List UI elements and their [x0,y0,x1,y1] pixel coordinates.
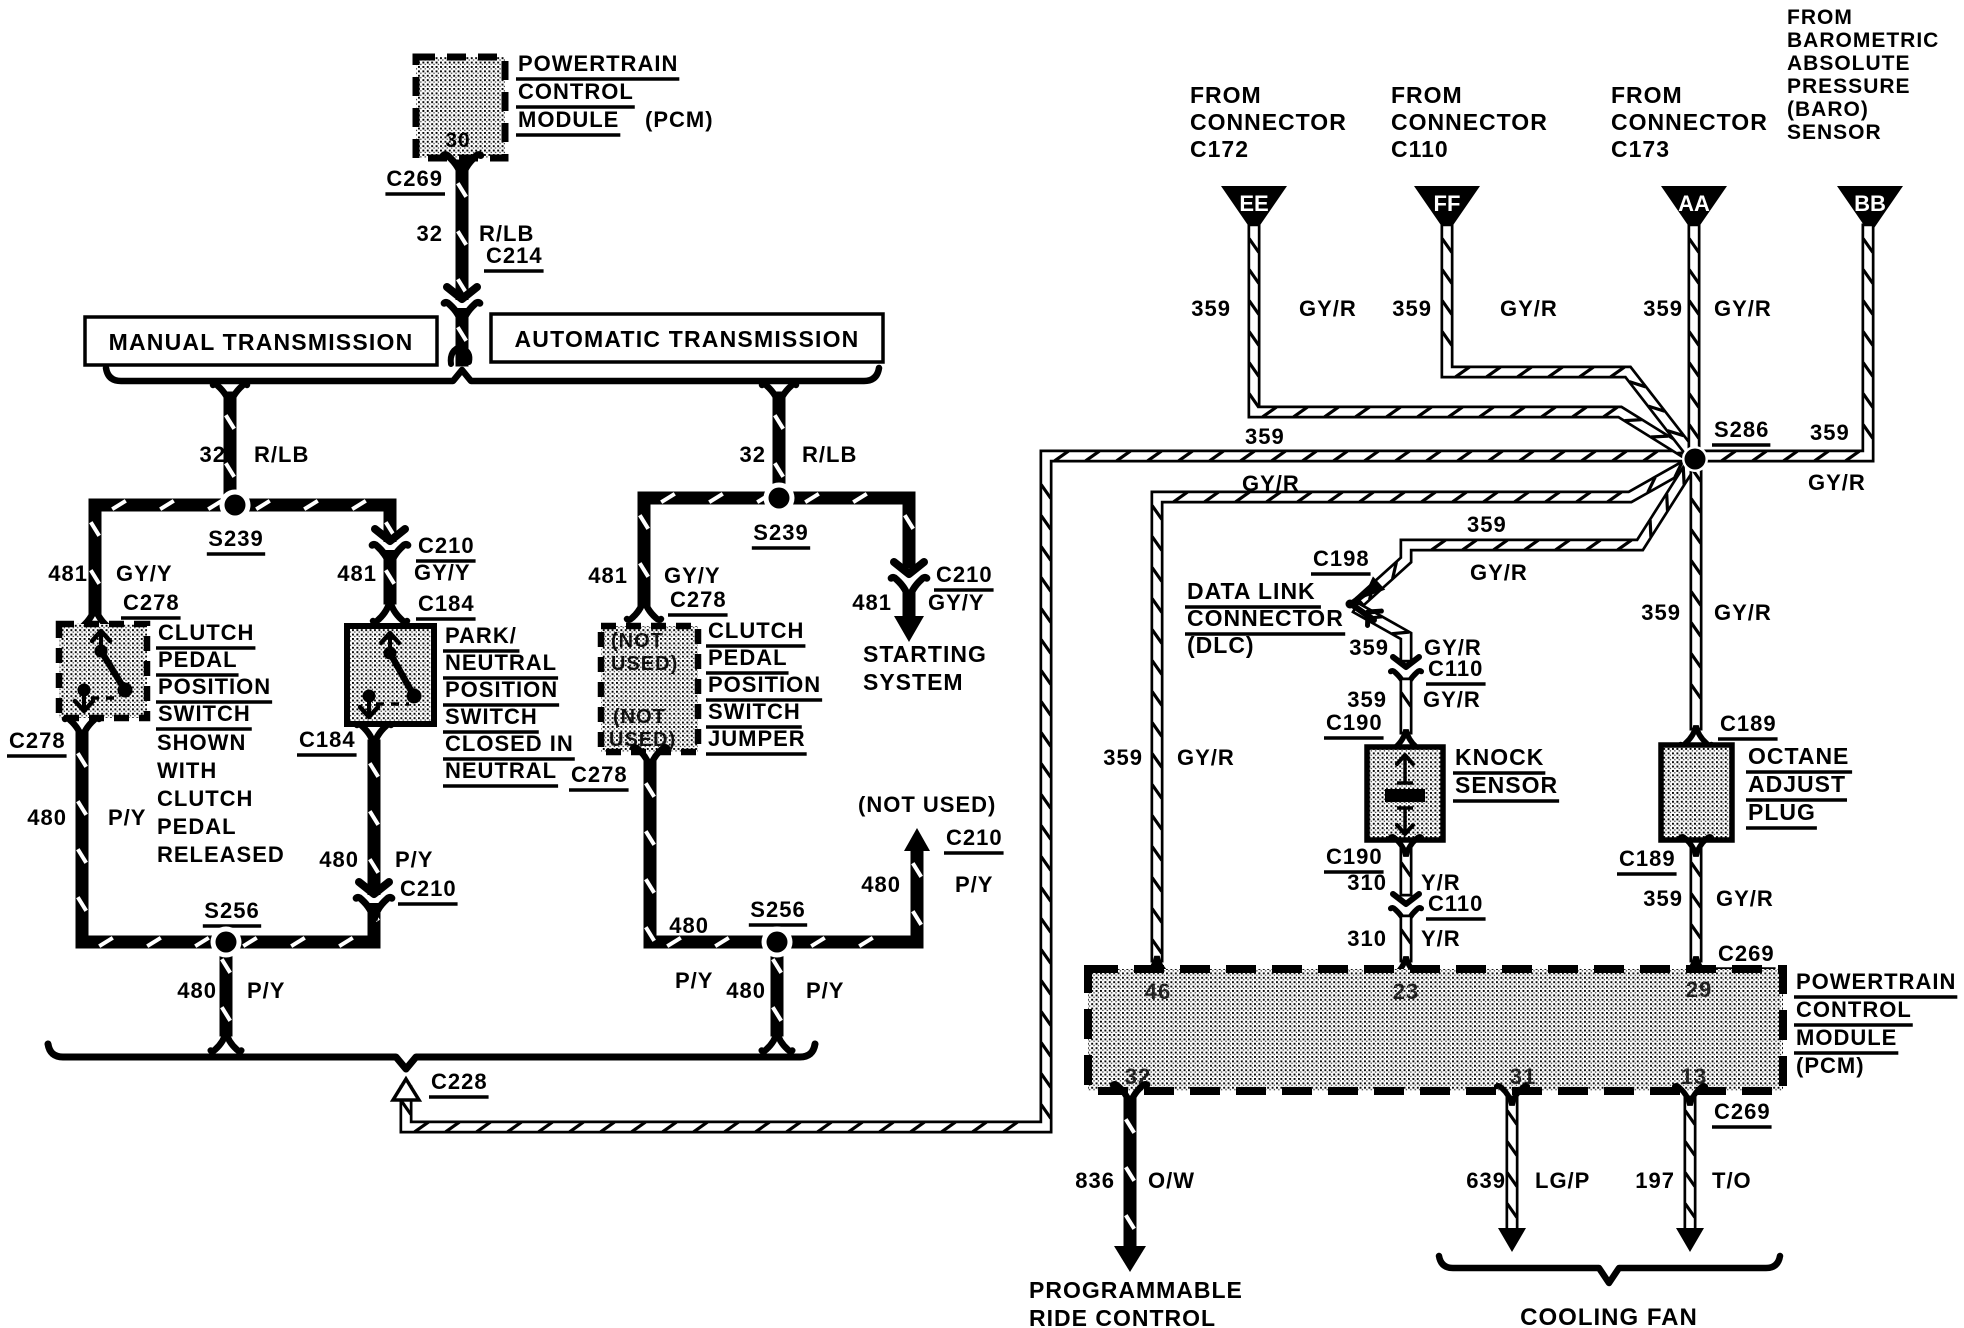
wire 359 GY/R from S286 to octane adjust plug [1681,459,1712,745]
wire 481 GY/Y auto horizontal [644,494,909,502]
svg-text:S256: S256 [750,897,805,922]
svg-text:POSITION: POSITION [158,674,271,699]
wire 481 GY/Y auto left vertical [627,498,661,620]
svg-text:P/Y: P/Y [108,805,146,830]
svg-text:480: 480 [319,847,359,872]
svg-text:CLUTCH: CLUTCH [157,786,253,811]
svg-text:GY/R: GY/R [1177,745,1235,770]
svg-text:29: 29 [1686,977,1712,1002]
svg-text:GY/R: GY/R [1808,470,1866,495]
svg-text:CONNECTOR: CONNECTOR [1187,605,1344,631]
svg-text:GY/R: GY/R [1299,296,1357,321]
svg-text:SWITCH: SWITCH [158,701,251,726]
svg-text:EE: EE [1239,191,1268,216]
svg-text:C269: C269 [1714,1099,1771,1124]
svg-text:SENSOR: SENSOR [1787,121,1882,144]
wire 32 R/LB automatic branch [762,384,796,493]
svg-text:32: 32 [740,442,766,467]
wire label 836 O/W [1075,1168,1195,1193]
svg-text:P/Y: P/Y [395,847,433,872]
wire 359 GY/R from AA [1689,230,1699,456]
label POWERTRAIN CONTROL MODULE (PCM) top [516,51,714,135]
svg-text:(NOT USED): (NOT USED) [858,792,996,817]
svg-text:C228: C228 [431,1069,488,1094]
connector C228 label [429,1069,489,1097]
svg-text:(DLC): (DLC) [1187,632,1255,658]
svg-text:GY/R: GY/R [1500,296,1558,321]
svg-text:GY/Y: GY/Y [116,561,173,586]
connector C198 label [1311,546,1371,574]
wire 481 GY/Y from S239 down to C184 [373,505,407,622]
connector C278 label (below jumper) [569,762,629,790]
connector triangle FF [1414,186,1480,234]
svg-text:639: 639 [1466,1168,1506,1193]
wire 359 GY/R from BB [1700,230,1873,461]
svg-text:PEDAL: PEDAL [158,647,238,672]
powertrain control module PCM (top) box [416,57,505,158]
svg-text:MODULE: MODULE [1796,1025,1897,1050]
svg-text:C198: C198 [1313,546,1370,571]
label (NOT USED) C210 480 P/Y (auto stub) [858,792,1004,897]
svg-text:359: 359 [1349,635,1389,660]
svg-text:PLUG: PLUG [1748,799,1816,825]
svg-text:SWITCH: SWITCH [445,704,538,729]
svg-text:GY/Y: GY/Y [414,560,471,585]
svg-text:359: 359 [1347,687,1387,712]
wire 480 P/Y below S256 (manual) [211,942,242,1051]
svg-text:BB: BB [1854,191,1886,216]
svg-text:OCTANE: OCTANE [1748,743,1849,769]
connector C184 label (below park/neutral) [297,727,357,755]
svg-text:S256: S256 [204,898,259,923]
wire 359 GY/R from FF [1442,230,1694,457]
data link connector DLC symbol [1346,576,1386,625]
wire stub + arrow to STARTING SYSTEM [894,592,924,642]
svg-text:S286: S286 [1714,417,1769,442]
svg-text:CLOSED IN: CLOSED IN [445,731,574,756]
wire label 359 GY/R (octane upper) [1641,600,1772,625]
svg-text:NEUTRAL: NEUTRAL [445,758,557,783]
clutch pedal position switch jumper box (NOT USED) [601,626,698,752]
svg-text:480: 480 [861,872,901,897]
wire label 197 T/O [1635,1168,1751,1193]
wire label 639 LG/P [1466,1168,1590,1193]
brace cooling fan [1439,1256,1780,1283]
label S239 (auto) [752,520,810,548]
wire label 359 (loop) [1245,424,1285,449]
connector triangle BB [1837,186,1903,234]
wire 359 loop from C228 to S286 [401,451,1686,1132]
svg-text:GY/R: GY/R [1423,687,1481,712]
svg-text:359: 359 [1103,745,1143,770]
label CLUTCH PEDAL POSITION SWITCH JUMPER [706,618,822,754]
svg-text:ADJUST: ADJUST [1748,771,1846,797]
svg-text:P/Y: P/Y [675,968,713,993]
wire label 359 GY/R (above C110) [1349,635,1482,660]
wire label 480 P/Y (auto bottom) [726,978,844,1003]
svg-text:(PCM): (PCM) [1796,1053,1865,1078]
svg-text:C172: C172 [1190,136,1249,162]
splice S256 (auto) [762,927,793,958]
svg-text:Y/R: Y/R [1421,926,1461,951]
svg-text:T/O: T/O [1712,1168,1752,1193]
connector C110 inline (knock, lower) [1391,894,1422,927]
wire 310 Y/R below knock sensor [1391,837,1422,890]
label S256 (auto) [749,897,807,925]
label S256 (manual) [203,898,261,926]
wire label 32 R/LB (auto) [740,442,858,467]
svg-text:C278: C278 [9,728,66,753]
wire label 481 GY/Y (left) [48,561,172,586]
svg-text:(NOT: (NOT [611,630,664,652]
wire label 32 R/LB (top) [417,221,535,246]
svg-text:CONTROL: CONTROL [1796,997,1912,1022]
label FROM CONNECTOR C173 [1611,82,1768,162]
svg-text:32: 32 [417,221,443,246]
svg-text:SENSOR: SENSOR [1455,772,1558,798]
svg-text:(BARO): (BARO) [1787,98,1869,121]
svg-text:359: 359 [1392,296,1432,321]
svg-text:FROM: FROM [1611,82,1683,108]
svg-text:RIDE CONTROL: RIDE CONTROL [1029,1305,1216,1328]
connector C210 inline (manual upper) [372,529,408,567]
svg-text:GY/R: GY/R [1714,296,1772,321]
wire label 480 P/Y and C210 (manual right) [319,847,457,904]
wire 359 GY/R from octane plug to PCM pin 29 [1681,837,1712,976]
svg-text:C190: C190 [1326,710,1383,735]
wire 197 T/O to cooling fan [1675,1086,1706,1252]
wire label 480 P/Y (manual bottom) [177,978,285,1003]
svg-text:836: 836 [1075,1168,1115,1193]
svg-text:CONNECTOR: CONNECTOR [1190,109,1347,135]
label FROM BAROMETRIC ABSOLUTE PRESSURE (BARO) SENSOR [1787,6,1939,144]
svg-text:CLUTCH: CLUTCH [158,620,254,645]
svg-text:POWERTRAIN: POWERTRAIN [1796,969,1956,994]
svg-text:JUMPER: JUMPER [708,726,806,751]
label DATA LINK CONNECTOR (DLC) [1185,578,1345,658]
svg-text:C184: C184 [418,591,475,616]
svg-text:359: 359 [1643,886,1683,911]
svg-text:S239: S239 [208,526,263,551]
svg-text:CONNECTOR: CONNECTOR [1391,109,1548,135]
svg-text:C184: C184 [299,727,356,752]
svg-text:GY/Y: GY/Y [664,563,721,588]
connector C278 label (auto, above jumper) [668,587,728,615]
svg-text:GY/R: GY/R [1470,560,1528,585]
label S286 [1712,417,1770,445]
connector C228 arrow [393,1079,419,1100]
wire 359 GY/R from S286 to data link connector [1360,463,1692,656]
svg-text:C278: C278 [123,590,180,615]
svg-text:(PCM): (PCM) [645,107,714,132]
svg-text:C173: C173 [1611,136,1670,162]
svg-text:R/LB: R/LB [802,442,857,467]
wire label 359 GY/R (EE) [1191,296,1357,321]
svg-text:GY/Y: GY/Y [928,590,985,615]
svg-text:USED): USED) [611,653,678,675]
connector triangle EE [1221,186,1287,234]
powertrain control module PCM (bottom) box [1088,969,1783,1091]
wire 32 R/LB vertical from PCM to C214 [443,155,480,360]
svg-text:FF: FF [1434,191,1461,216]
wire label 32 R/LB (manual) [200,442,310,467]
wire label 359 GY/R (below C110) [1347,687,1481,712]
svg-text:P/Y: P/Y [806,978,844,1003]
wire label 310 Y/R (upper) [1347,870,1460,895]
wire 310 Y/R to PCM pin 23 [1391,921,1422,976]
wire 481 GY/Y left vertical [78,505,112,628]
connector C189 label (lower) [1617,846,1677,874]
label FROM CONNECTOR C172 [1190,82,1347,162]
connector C278 label (below clutch switch) [7,728,67,756]
svg-text:359: 359 [1245,424,1285,449]
wire end curl above brace [451,346,470,364]
connector C184 label (above park/neutral) [416,591,476,619]
wire 480 P/Y below clutch switch [65,718,99,942]
wire 480 P/Y below S256 (auto) [762,942,793,1051]
wire label GY/R (pin46 horizontal) [1242,471,1300,496]
svg-text:C278: C278 [571,762,628,787]
svg-text:PARK/: PARK/ [445,623,517,648]
svg-text:STARTING: STARTING [863,641,987,667]
svg-text:FROM: FROM [1787,6,1853,29]
wire label 480 P/Y (left) [27,805,146,830]
svg-text:RELEASED: RELEASED [157,842,285,867]
connector C190 label (upper) [1324,710,1384,738]
wire label 359 GY/R (octane lower) [1643,886,1774,911]
octane adjust plug box [1661,745,1732,840]
svg-text:DATA LINK: DATA LINK [1187,578,1316,604]
wire 639 LG/P to cooling fan [1497,1086,1528,1252]
svg-text:PRESSURE: PRESSURE [1787,75,1911,98]
svg-text:SHOWN: SHOWN [157,730,246,755]
svg-text:P/Y: P/Y [955,872,993,897]
wire label 480 (auto left) [669,913,709,938]
svg-text:SWITCH: SWITCH [708,699,801,724]
splice S286 [1682,446,1708,472]
svg-text:FROM: FROM [1190,82,1262,108]
svg-text:GY/R: GY/R [1716,886,1774,911]
svg-text:LG/P: LG/P [1535,1168,1590,1193]
label PARK/NEUTRAL POSITION SWITCH CLOSED IN NEUTRAL [443,623,575,786]
svg-text:C278: C278 [670,587,727,612]
svg-text:C269: C269 [1718,941,1775,966]
brace above C228 (bottom bus) [48,1044,815,1069]
svg-text:FROM: FROM [1391,82,1463,108]
label OCTANE ADJUST PLUG [1746,743,1852,828]
wire 481 GY/Y to starting system [905,498,913,562]
connector C189 label (upper) [1718,711,1778,739]
svg-text:359: 359 [1810,420,1850,445]
connector C210 inline (auto right) [891,562,927,600]
svg-text:359: 359 [1643,296,1683,321]
wire label 310 Y/R (lower) [1347,926,1460,951]
svg-text:C110: C110 [1428,656,1483,681]
svg-text:C210: C210 [936,562,993,587]
splice S239 (manual) [220,490,251,521]
svg-text:481: 481 [48,561,88,586]
wire 359 GY/R from EE [1249,230,1694,458]
svg-text:GY/R: GY/R [1242,471,1300,496]
wire label 359 GY/R (BB right) [1808,420,1866,495]
connector C190 label (lower) [1324,844,1384,872]
splice S239 (auto) [764,483,795,514]
labels C210 GY/Y 481 (manual upper) [337,533,475,586]
svg-text:GY/R: GY/R [1714,600,1772,625]
wire 359 GY/R from S286 to PCM pin 46 [1141,462,1692,977]
wire 480 P/Y stub to C210 NOT USED [904,828,930,942]
wire label 359 GY/R (pin46 vertical) [1103,745,1235,770]
svg-text:C190: C190 [1326,844,1383,869]
svg-text:(NOT: (NOT [613,706,666,728]
svg-text:480: 480 [177,978,217,1003]
svg-text:ABSOLUTE: ABSOLUTE [1787,52,1911,75]
svg-text:P/Y: P/Y [247,978,285,1003]
splice S256 (manual) [211,927,242,958]
svg-text:CONTROL: CONTROL [518,79,634,104]
wire 836 O/W to programmable ride control [1113,1084,1147,1272]
svg-text:359: 359 [1191,296,1231,321]
label FROM CONNECTOR C110 [1391,82,1548,162]
svg-text:46: 46 [1145,979,1171,1004]
AUTOMATIC TRANSMISSION box [491,314,883,362]
label KNOCK SENSOR [1453,744,1559,801]
brace under transmission boxes [106,368,879,381]
svg-text:310: 310 [1347,870,1387,895]
svg-text:AA: AA [1678,191,1710,216]
labels C210 GY/Y 481 (auto right) [852,562,993,615]
svg-text:480: 480 [669,913,709,938]
wire 481 GY/Y manual horizontal [95,501,390,509]
wire label 359 GY/R (DLC horizontal) [1467,512,1528,585]
svg-text:CLUTCH: CLUTCH [708,618,804,643]
connector C214 symbol [444,287,480,325]
wire S256 horizontal (manual) [82,938,374,946]
knock sensor box [1367,747,1443,840]
connector C110 label (lower) [1426,891,1486,919]
svg-text:310: 310 [1347,926,1387,951]
svg-text:32: 32 [200,442,226,467]
wire label P/Y (auto left) [675,968,713,993]
svg-text:CONNECTOR: CONNECTOR [1611,109,1768,135]
label PROGRAMMABLE RIDE CONTROL [1029,1277,1243,1328]
wire 32 R/LB manual branch [213,384,247,500]
connector C269 label (below PCM) [1712,1099,1772,1127]
note SHOWN WITH CLUTCH PEDAL RELEASED [157,730,285,867]
svg-text:NEUTRAL: NEUTRAL [445,650,557,675]
label STARTING SYSTEM [863,641,987,695]
svg-text:480: 480 [27,805,67,830]
MANUAL TRANSMISSION box [85,317,437,365]
svg-text:C189: C189 [1720,711,1777,736]
svg-text:POSITION: POSITION [445,677,558,702]
svg-text:MODULE: MODULE [518,107,619,132]
park/neutral position switch box [347,626,434,724]
wire label 481 GY/Y (auto left) [588,563,720,588]
svg-text:PEDAL: PEDAL [157,814,237,839]
connector C110 label (upper) [1426,656,1486,684]
connector C278 label (above clutch switch) [121,590,181,618]
wire 359 GY/R from C110 to knock sensor [1391,684,1422,749]
label S239 (manual) [207,526,265,554]
svg-text:POWERTRAIN: POWERTRAIN [518,51,678,76]
svg-text:C110: C110 [1428,891,1483,916]
svg-text:MANUAL TRANSMISSION: MANUAL TRANSMISSION [109,329,414,355]
clutch pedal position switch box [59,624,147,718]
svg-text:POSITION: POSITION [708,672,821,697]
svg-text:COOLING FAN: COOLING FAN [1520,1304,1698,1328]
wire label 359 GY/R (FF) [1392,296,1558,321]
svg-text:480: 480 [726,978,766,1003]
svg-text:481: 481 [852,590,892,615]
svg-text:23: 23 [1393,979,1419,1004]
connector C269 label (above PCM) [1716,941,1776,969]
svg-text:S239: S239 [753,520,808,545]
svg-text:AUTOMATIC TRANSMISSION: AUTOMATIC TRANSMISSION [515,326,860,352]
label POWERTRAIN CONTROL MODULE (PCM) bottom [1794,969,1957,1078]
svg-text:359: 359 [1641,600,1681,625]
connector C110 inline (knock, upper) [1391,657,1422,690]
connector C210 inline (manual, below park/neutral) [356,882,392,920]
svg-text:C269: C269 [386,166,443,191]
svg-text:C110: C110 [1391,136,1449,162]
svg-text:C210: C210 [400,876,457,901]
wire label 359 GY/R (AA) [1643,296,1772,321]
svg-text:30: 30 [445,129,470,152]
svg-text:C189: C189 [1619,846,1676,871]
svg-text:KNOCK: KNOCK [1455,744,1544,770]
svg-text:BAROMETRIC: BAROMETRIC [1787,29,1939,52]
connector triangle AA [1661,186,1727,234]
svg-text:197: 197 [1635,1168,1675,1193]
svg-text:C210: C210 [418,533,475,558]
svg-text:R/LB: R/LB [254,442,309,467]
wire 480 P/Y from park-neutral switch down to S256 [357,724,391,942]
svg-text:PROGRAMMABLE: PROGRAMMABLE [1029,1277,1243,1303]
svg-text:C210: C210 [946,825,1003,850]
svg-text:SYSTEM: SYSTEM [863,669,964,695]
svg-text:359: 359 [1467,512,1507,537]
wire 480 P/Y below jumper to S256 auto [633,747,917,946]
connector C214 label [484,243,544,271]
label CLUTCH PEDAL POSITION SWITCH [156,620,272,729]
svg-text:O/W: O/W [1148,1168,1195,1193]
svg-text:C214: C214 [486,243,543,268]
svg-text:PEDAL: PEDAL [708,645,788,670]
label COOLING FAN [1520,1304,1698,1328]
svg-text:481: 481 [588,563,628,588]
svg-text:481: 481 [337,561,377,586]
connector C269 label (top) [385,166,445,194]
svg-text:WITH: WITH [157,758,217,783]
